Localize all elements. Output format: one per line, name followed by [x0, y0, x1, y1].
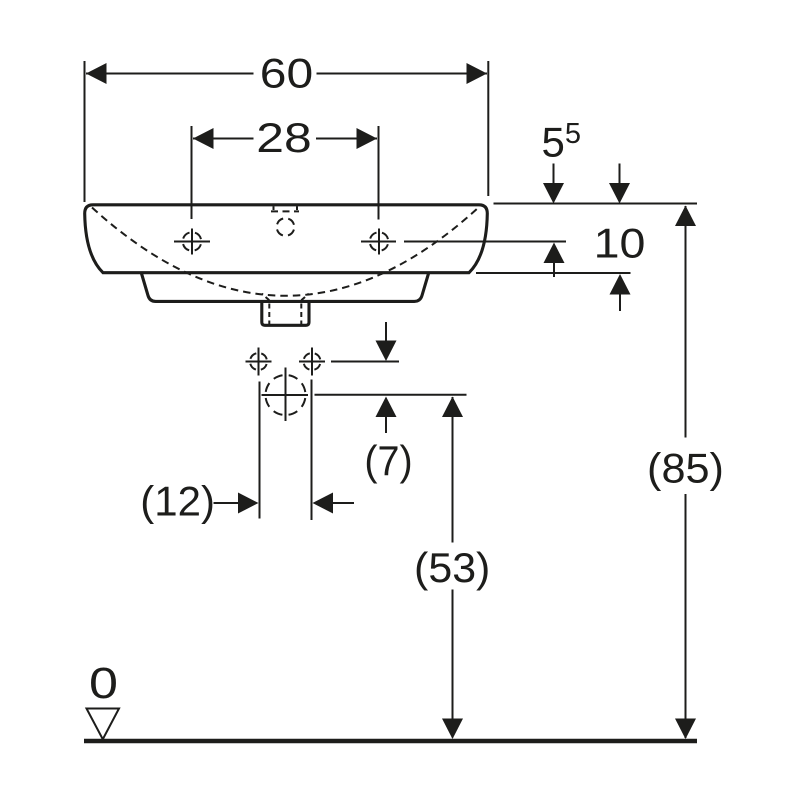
bowl bottom level extension line (right) [476, 272, 631, 274]
svg-text:(7): (7) [364, 437, 412, 484]
svg-text:(12): (12) [140, 478, 215, 525]
dimension 5.5 upper arrow stem [553, 164, 555, 186]
trap level extension line [315, 394, 467, 396]
dimension (85) top arrowhead (up) [675, 206, 696, 227]
dimension (7) lower arrowhead (up) [376, 397, 397, 418]
dimension (85) bottom arrowhead (down) [675, 719, 696, 740]
dimension (53) bottom arrowhead (down) [442, 719, 463, 740]
tap hole right crosshair [361, 229, 396, 255]
tap hole left (dashed circle) [183, 232, 202, 251]
drain cone hidden edges (dashed diagonals) [262, 294, 309, 301]
svg-text:(85): (85) [647, 445, 724, 492]
dimension (85) line [685, 206, 687, 738]
overflow hole (dashed circle) [277, 218, 295, 236]
overflow slot hidden bottom (dashed) [271, 210, 299, 212]
svg-text:0: 0 [89, 659, 118, 708]
fixing hole right (dashed circle) [304, 353, 321, 370]
inner bowl hidden edge (dashed curve) [92, 208, 479, 296]
waste/trap connection (large dashed circle) [266, 375, 306, 415]
washbasin outer bowl outline [85, 205, 488, 273]
svg-text:10: 10 [594, 220, 646, 267]
dimension (12) left arrowhead (right-pointing) [238, 493, 259, 514]
dimension (12) right arrow stem [332, 502, 354, 504]
dimension (7) lower arrow stem [385, 416, 387, 433]
dimension 5.5 lower arrow stem [553, 262, 555, 277]
drain outlet hidden edges (dashed verticals) [269, 304, 301, 325]
waste/trap connection crosshair [262, 368, 309, 422]
floor line [84, 739, 697, 744]
tap hole level extension line (right) [404, 241, 566, 243]
dimension 60 extension line right [487, 61, 489, 196]
dimension 10 upper arrow stem [619, 164, 621, 186]
fixing hole right crosshair [299, 348, 325, 376]
dimension 10 lower arrowhead (up) [610, 274, 631, 295]
dimension 28 arrowhead left [193, 128, 214, 149]
dimension (7) upper arrow stem [385, 322, 387, 342]
dimension 5.5 lower arrowhead (up) [544, 243, 565, 264]
dimension 10 upper arrowhead (down) [609, 183, 630, 204]
dimension 60 line [86, 73, 487, 75]
svg-text:28: 28 [256, 114, 311, 161]
dimension (12) right arrowhead (left-pointing) [313, 493, 334, 514]
fixing hole level extension line [331, 361, 399, 363]
washbasin pedestal (lower apron) outline [142, 274, 429, 302]
overflow slot ticks [274, 206, 298, 210]
dimension 60 extension line left [84, 61, 86, 202]
drain outlet rectangle [262, 303, 309, 325]
fixing hole left (dashed circle) [250, 353, 267, 370]
dimension 28 extension line left [191, 126, 193, 219]
dimension 28 arrowhead right [357, 128, 378, 149]
svg-text:(53): (53) [414, 544, 490, 591]
dimension 5.5 upper arrowhead (down) [543, 183, 564, 204]
rim top level extension line (right) [494, 203, 698, 205]
dimension 28 extension line right [378, 126, 380, 220]
svg-text:60: 60 [260, 50, 313, 97]
dimension (12) extension line right [311, 380, 313, 521]
dimension (7) upper arrowhead (down) [376, 341, 397, 362]
datum zero triangle [87, 709, 120, 740]
dimension (53) top arrowhead (up) [442, 397, 463, 418]
dimension (53) line [452, 397, 454, 738]
tap hole right (dashed circle) [370, 232, 389, 251]
dimension 28 line [193, 138, 377, 140]
dimension (12) extension line left [259, 382, 261, 519]
dimension 60 arrowhead left [86, 63, 107, 84]
dimension 60 arrowhead right [467, 63, 488, 84]
dimension 10 lower arrow stem [619, 294, 621, 311]
fixing hole left crosshair [246, 348, 272, 376]
dimension (12) left arrow stem [214, 502, 241, 504]
tap hole left crosshair [174, 229, 210, 255]
